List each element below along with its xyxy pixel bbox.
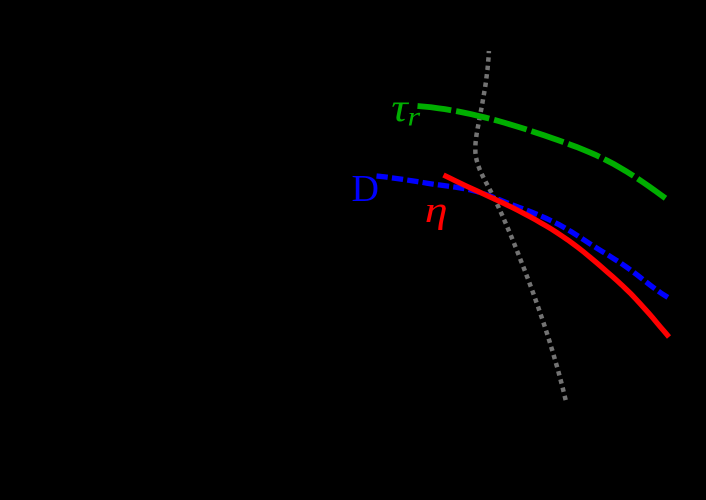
gray dotted line [475,51,566,401]
label tau_r [391,86,409,130]
red solid curve eta [444,175,670,337]
green dashed curve tau_r [418,106,666,198]
svg-text:r: r [408,102,421,132]
label eta [425,190,448,231]
svg-text:η: η [425,190,448,231]
svg-text:D: D [352,168,379,210]
blue dashed curve D [377,176,669,298]
